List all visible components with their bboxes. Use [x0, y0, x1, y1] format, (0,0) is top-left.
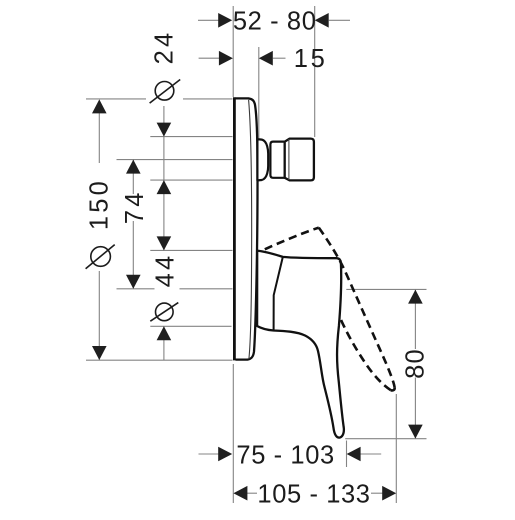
dim 15 tails — [199, 57, 219, 59]
cartridge cap lip line — [288, 139, 290, 180]
ext h handle tip bottom — [345, 438, 426, 440]
plate face inner contour — [249, 100, 252, 359]
arrow 15 right — [259, 51, 273, 66]
arrow 74 bottom — [126, 275, 141, 289]
ext v neck-left top — [258, 47, 260, 138]
arrow D150 bottom — [92, 346, 107, 360]
svg-text:80: 80 — [401, 348, 429, 379]
arrow 80 bottom — [408, 425, 423, 439]
arrow 52-80 left — [218, 13, 232, 28]
svg-text:150: 150 — [86, 178, 114, 230]
dim 105-133 stubs — [247, 492, 257, 494]
ext v plate-left top — [232, 6, 234, 97]
handle front internal line — [274, 257, 283, 331]
cartridge neck — [257, 139, 268, 180]
svg-text:105 - 133: 105 - 133 — [257, 480, 370, 508]
extension line group (gray) — [86, 6, 427, 503]
diameter symbol 150 — [86, 245, 115, 269]
arrow D44 top — [157, 236, 172, 250]
ext h plate bottom (F) — [86, 359, 233, 361]
dashed lever inner curve — [340, 316, 391, 390]
arrow D44 bottom — [157, 326, 172, 340]
dashed lever raised left segment — [265, 228, 319, 250]
svg-text:24: 24 — [151, 30, 179, 65]
ext v solid-tip bottom — [346, 441, 348, 468]
dashed lever tip arc — [391, 387, 395, 390]
arrow 80 top — [408, 290, 423, 304]
escutcheon plate — [234, 97, 257, 360]
ext h cartridge bottom (C) — [150, 179, 232, 181]
arrow D24 bottom — [157, 180, 172, 194]
arrow 15 left — [219, 51, 233, 66]
cartridge cap — [285, 139, 314, 181]
handle lever solid — [257, 251, 344, 438]
arrows — [92, 13, 423, 501]
arrow 74 top — [126, 160, 141, 174]
ext v cap-right top — [314, 6, 316, 137]
ext h handle base top (D) — [150, 249, 232, 251]
dim line D24-44 vertical — [163, 106, 165, 250]
plate wall edge — [233, 97, 236, 360]
ext h cartridge top (A) — [150, 136, 232, 138]
ext v dashed-tip bottom — [395, 394, 397, 503]
arrow 75-103 right — [347, 447, 361, 462]
ext h handle base bottom (G) — [150, 325, 231, 327]
dim line D150 vertical — [98, 101, 100, 164]
dim line 74 vertical — [132, 160, 134, 194]
svg-text:52 - 80: 52 - 80 — [233, 8, 317, 36]
arrow D24 top — [157, 123, 172, 137]
arrow 105-133 right — [382, 486, 396, 501]
arrow D150 top — [92, 99, 107, 113]
svg-text:44: 44 — [152, 253, 180, 288]
dashed lever raised outer curve — [319, 228, 395, 388]
svg-text:75 - 103: 75 - 103 — [236, 442, 334, 470]
ext h plate top — [86, 98, 146, 100]
svg-text:15: 15 — [294, 45, 328, 73]
ext v plate-left bottom — [232, 364, 234, 503]
diameter symbol 44 — [150, 303, 178, 322]
ext h handle center (E) — [117, 288, 155, 290]
cartridge mid cylinder right edge thin — [283, 141, 285, 178]
ext h cartridge center (B) — [117, 159, 233, 161]
diameter symbol 24 — [150, 80, 181, 104]
arrow 52-80 right — [315, 13, 329, 28]
dim 52-80 tails — [198, 19, 219, 21]
dim 75-103 tails — [199, 453, 219, 455]
cartridge mid cylinder — [270, 142, 284, 178]
dim line 80 vertical — [414, 290, 416, 349]
arrow 75-103 left — [218, 447, 232, 462]
arrow 105-133 left — [233, 486, 247, 501]
svg-text:74: 74 — [121, 189, 149, 224]
